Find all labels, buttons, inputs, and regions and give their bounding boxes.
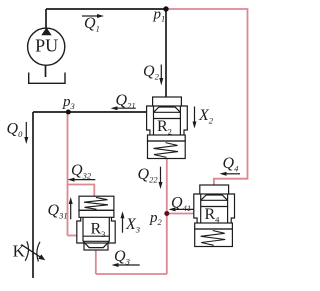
- wire red R3 bottom riser: [95, 250, 97, 274]
- arrow X2: [194, 107, 196, 123]
- arrow Q2: [160, 65, 162, 79]
- svg-text:Q21: Q21: [116, 92, 136, 111]
- arrow X3: [122, 218, 124, 233]
- valve R2 inner sleeve: [154, 106, 181, 135]
- wire red p1 to right edge and down to Q4: [167, 9, 248, 186]
- throttle valve K arcs: [25, 241, 40, 261]
- throttle valve K arrow: [21, 245, 40, 258]
- wire red p3 drop Q31: [67, 112, 69, 236]
- arrow Q4: [225, 173, 240, 175]
- valve R2 collar: [148, 135, 186, 141]
- arrow Q0: [25, 122, 27, 138]
- valve R3 poppet cup: [83, 241, 109, 247]
- valve R3 spring: [84, 197, 108, 209]
- valve R3 inner sleeve: [83, 217, 109, 241]
- wire left vertical Q0 line: [32, 112, 34, 278]
- arrow Q21: [116, 107, 136, 109]
- svg-text:Q31: Q31: [48, 202, 68, 221]
- arrow Q1: [82, 15, 98, 17]
- node p1: [163, 6, 168, 11]
- svg-text:p3: p3: [62, 94, 75, 111]
- valve R4 inner sleeve: [201, 194, 228, 223]
- arrow Q32: [73, 179, 95, 181]
- valve R2 outer casing: [147, 106, 188, 135]
- svg-text:Q41: Q41: [171, 194, 191, 213]
- arrow Q22: [160, 167, 162, 183]
- svg-text:R3: R3: [91, 221, 106, 240]
- svg-text:Q3: Q3: [114, 248, 130, 267]
- valve R3 spring box: [79, 196, 114, 210]
- wire red Q31 into R3 left port: [68, 235, 78, 237]
- svg-text:Q2: Q2: [143, 63, 160, 82]
- wire pump to tank: [45, 65, 47, 78]
- svg-text:R2: R2: [157, 118, 172, 137]
- wire red bottom horizontal: [96, 273, 167, 275]
- wire p3 horizontal line: [33, 111, 147, 113]
- wire pump top riser: [45, 9, 47, 29]
- svg-text:Q22: Q22: [138, 166, 159, 185]
- svg-text:Q32: Q32: [71, 162, 92, 181]
- valve R3 seat line: [83, 235, 109, 237]
- arrow Q41: [174, 208, 194, 210]
- valve R2 bonnet: [153, 97, 182, 106]
- svg-text:p2: p2: [149, 210, 163, 227]
- valve R4 bonnet: [200, 185, 229, 194]
- valve R4 poppet: [201, 195, 228, 207]
- valve R3 collar: [79, 210, 114, 217]
- svg-text:X3: X3: [125, 216, 140, 235]
- arrow Q3: [117, 264, 140, 266]
- wire red Q32 branch to R3 spring top: [68, 185, 95, 197]
- svg-text:PU: PU: [35, 35, 58, 55]
- svg-text:R4: R4: [205, 206, 221, 225]
- valve R2 poppet: [154, 107, 181, 119]
- valve R3 bonnet: [84, 243, 108, 250]
- valve R2 spring: [154, 143, 179, 158]
- pump triangle: [41, 28, 51, 36]
- valve R4 collar: [195, 223, 233, 229]
- valve R4 spring: [201, 231, 226, 246]
- svg-text:Q0: Q0: [7, 120, 24, 139]
- node p2: [164, 211, 169, 216]
- node p3: [66, 110, 71, 115]
- valve R3 outer casing: [77, 217, 115, 243]
- valve R4 outer casing: [194, 194, 235, 223]
- svg-text:K: K: [13, 241, 26, 260]
- valve R4 spring box: [195, 229, 233, 247]
- pump PU circle: [28, 28, 65, 65]
- arrow Q31: [70, 204, 72, 220]
- wire red R2 spring to p2 to bottom: [166, 159, 168, 275]
- wire pump-to-p1 top line: [46, 8, 166, 10]
- svg-text:X2: X2: [198, 107, 214, 126]
- tank: [29, 73, 65, 84]
- wire red Q41 p2 to R4: [167, 213, 194, 215]
- svg-text:Q1: Q1: [84, 15, 100, 34]
- wire Q2 drop p1 to R2: [165, 9, 167, 97]
- valve R2 spring box: [148, 141, 186, 159]
- svg-text:Q4: Q4: [223, 155, 240, 174]
